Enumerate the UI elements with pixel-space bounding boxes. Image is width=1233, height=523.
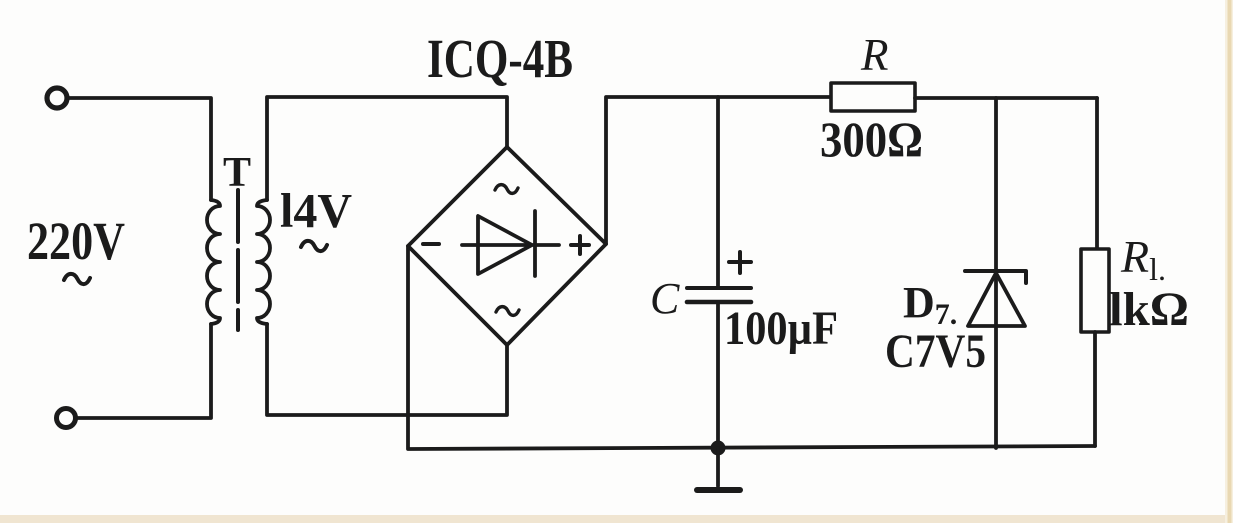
- svg-text:R: R: [860, 30, 889, 80]
- resistor RL: [1081, 249, 1109, 332]
- zener diode D7 cathode bar: [965, 271, 1026, 283]
- wire primary bottom: [76, 324, 211, 418]
- capacitor C top wire: [716, 97, 720, 286]
- svg-text:C7V5: C7V5: [885, 325, 986, 378]
- wire RL branch top: [1095, 98, 1099, 249]
- bridge rectifier ICQ-4B: [408, 147, 606, 345]
- tilde under 14V: [301, 241, 327, 251]
- scan edge right: [1225, 0, 1233, 523]
- svg-text:220V: 220V: [27, 211, 125, 271]
- svg-text:ICQ-4B: ICQ-4B: [427, 28, 573, 89]
- tilde under 220V: [64, 274, 90, 284]
- ground: [716, 448, 720, 486]
- capacitor C plates: [687, 286, 751, 290]
- wire bridge plus to top rail: [606, 97, 831, 244]
- svg-text:300Ω: 300Ω: [820, 111, 923, 167]
- capacitor plus label: [729, 252, 751, 273]
- terminal top-left: [47, 88, 67, 108]
- wire bridge minus to bottom rail: [408, 246, 1095, 449]
- junction ground node: [711, 441, 726, 456]
- wire secondary bottom to bridge: [267, 324, 507, 415]
- svg-text:T: T: [223, 150, 251, 196]
- transformer T primary winding: [207, 200, 220, 324]
- zener diode D7 triangle: [968, 273, 1025, 326]
- wire RL bottom: [1093, 332, 1097, 446]
- wire zener branch: [994, 98, 998, 448]
- bridge minus sign: [423, 242, 439, 246]
- wire secondary top to bridge: [267, 97, 507, 200]
- resistor R: [831, 83, 915, 111]
- terminal bottom-left: [57, 409, 76, 428]
- transformer core: [236, 190, 240, 330]
- wire primary top: [68, 98, 211, 200]
- bridge diode: [462, 211, 559, 276]
- scan edge bottom: [0, 515, 1233, 523]
- svg-text:100µF: 100µF: [724, 302, 838, 355]
- svg-text:C: C: [650, 274, 680, 323]
- bridge tilde bottom: [496, 307, 519, 316]
- capacitor C bottom wire: [716, 304, 720, 448]
- wire top rail right: [915, 96, 1097, 100]
- svg-text:l4V: l4V: [280, 183, 352, 238]
- transformer secondary winding: [257, 200, 270, 324]
- svg-text:lkΩ: lkΩ: [1109, 283, 1189, 336]
- bridge plus sign: [571, 236, 589, 254]
- bridge tilde top: [495, 185, 518, 194]
